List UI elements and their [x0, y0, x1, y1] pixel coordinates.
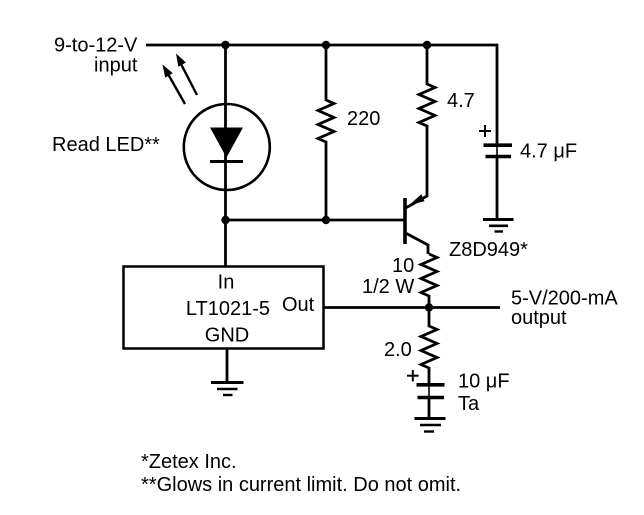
- wire LED branch vertical: [224, 45, 227, 220]
- node junction LED bottom: [221, 216, 229, 224]
- svg-text:Read LED**: Read LED**: [52, 134, 160, 156]
- wire supply drop to capacitor: [496, 44, 499, 144]
- svg-text:1/2 W: 1/2 W: [362, 276, 414, 298]
- resistor R4 2.0: [421, 308, 437, 384]
- resistor R3 10 1/2W: [421, 254, 437, 308]
- svg-text:input: input: [94, 55, 138, 77]
- node junction 220 top: [322, 41, 330, 49]
- svg-text:output: output: [511, 307, 567, 329]
- svg-text:220: 220: [347, 108, 380, 130]
- wire regulator GND: [226, 349, 229, 382]
- wire capacitor to ground: [496, 158, 499, 218]
- ground (capacitor C1): [483, 220, 514, 232]
- svg-text:9-to-12-V: 9-to-12-V: [54, 35, 138, 57]
- wire capacitor C2 to ground: [428, 399, 431, 418]
- wire top supply rail: [146, 44, 497, 47]
- node junction LED top: [221, 41, 229, 49]
- node junction output: [425, 303, 433, 311]
- svg-text:10 μF: 10 μF: [458, 371, 510, 393]
- regulator U1 LT1021-5: [124, 267, 324, 349]
- emission arrow 1: [163, 65, 186, 105]
- wire output rail: [324, 306, 500, 309]
- resistor R2 4.7: [407, 45, 436, 208]
- svg-text:LT1021-5: LT1021-5: [186, 298, 270, 320]
- svg-text:4.7: 4.7: [447, 90, 475, 112]
- capacitor C2 10 uF Ta: [407, 370, 445, 398]
- capacitor C1 4.7 uF: [479, 125, 512, 157]
- svg-text:GND: GND: [205, 325, 249, 347]
- svg-text:In: In: [218, 272, 235, 294]
- resistor R1 220: [318, 45, 334, 220]
- ground (regulator): [211, 383, 244, 396]
- wire regulator In: [224, 220, 227, 266]
- emission arrow 2: [176, 54, 197, 96]
- svg-text:**Glows in current limit. Do n: **Glows in current limit. Do not omit.: [141, 474, 461, 496]
- svg-text:Z8D949*: Z8D949*: [449, 239, 528, 261]
- LED D1 Read LED: [184, 104, 270, 190]
- ground (capacitor C2): [415, 419, 446, 432]
- node junction 4.7 top: [423, 41, 431, 49]
- transistor Q1 Z8D949: [405, 194, 428, 254]
- svg-text:Ta: Ta: [458, 393, 480, 415]
- wire base rail: [226, 219, 404, 222]
- svg-text:2.0: 2.0: [384, 339, 412, 361]
- svg-text:*Zetex Inc.: *Zetex Inc.: [141, 451, 237, 473]
- svg-text:4.7 μF: 4.7 μF: [520, 141, 577, 163]
- svg-text:10: 10: [392, 255, 414, 277]
- svg-text:Out: Out: [282, 294, 315, 316]
- node junction 220 bottom: [322, 216, 330, 224]
